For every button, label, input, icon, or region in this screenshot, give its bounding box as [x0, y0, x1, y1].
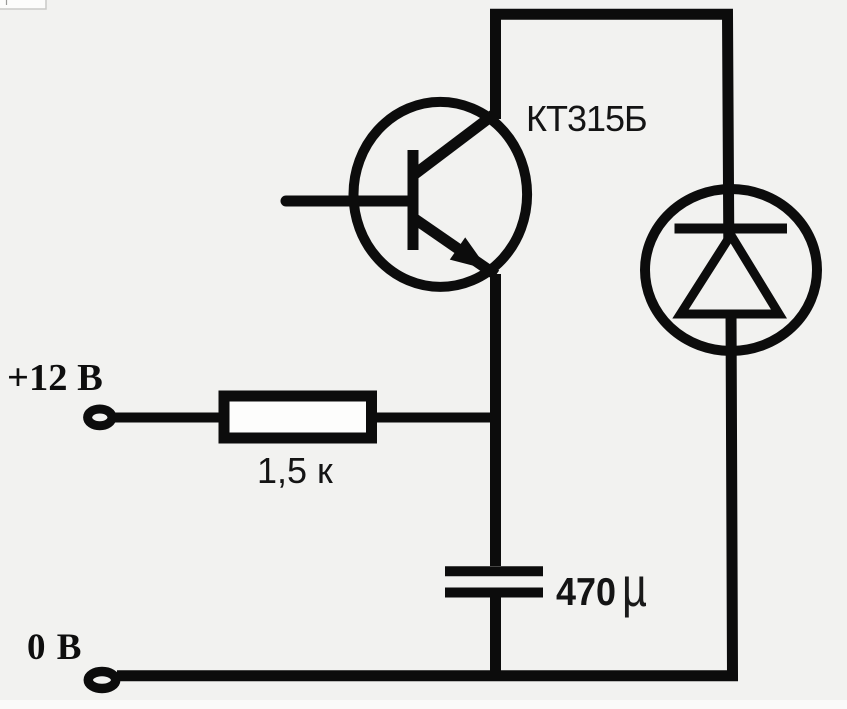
- wire resistor to emitter node: [375, 413, 495, 423]
- transistor Q1 KT315B: [354, 102, 528, 287]
- transistor base bar: [408, 150, 419, 250]
- terminal +12V: [88, 409, 112, 426]
- transistor collector diagonal: [411, 112, 497, 177]
- svg-text:470: 470: [556, 571, 616, 614]
- wire +12V terminal to resistor: [114, 413, 220, 423]
- wire emitter to capacitor: vertical: [490, 274, 501, 566]
- transistor emitter diagonal: [412, 217, 496, 275]
- wire bottom: from 0V terminal right, up right side to LED anode: [117, 310, 733, 676]
- diode cathode bar: [675, 224, 788, 234]
- transistor emitter arrowhead: [450, 237, 488, 269]
- wire capacitor to bottom: [490, 597, 501, 671]
- svg-text:µ: µ: [622, 555, 647, 618]
- resistor R1 1.5k: [224, 396, 372, 438]
- diode triangle: [681, 235, 780, 314]
- terminal 0V: [88, 672, 115, 689]
- ui remnant box top-left: [0, 0, 46, 9]
- LED / diode D1: [645, 189, 817, 351]
- svg-text:0 В: 0 В: [27, 627, 82, 668]
- transistor circle: [354, 102, 528, 287]
- capacitor bottom plate: [445, 588, 543, 598]
- svg-text:КТ315Б: КТ315Б: [526, 98, 647, 139]
- capacitor C1: [445, 571, 543, 592]
- svg-text:1,5 к: 1,5 к: [257, 450, 333, 491]
- wire base lead: [286, 196, 413, 207]
- wire collector-top-LED: vertical from transistor collector up, across top, down to LED cathode: [496, 14, 729, 240]
- diode circle: [645, 189, 817, 351]
- svg-text:+12 В: +12 В: [7, 357, 103, 399]
- capacitor top plate: [445, 566, 543, 576]
